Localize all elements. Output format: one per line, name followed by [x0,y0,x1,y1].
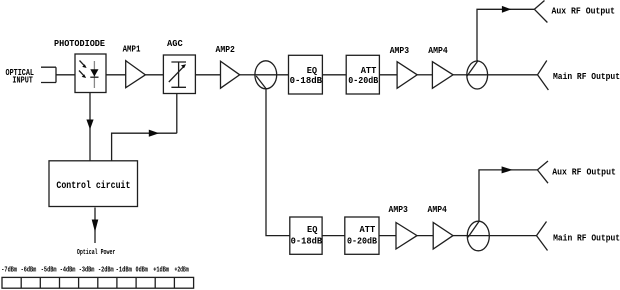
LED bar graph [2,277,194,288]
svg-text:PHOTODIODE: PHOTODIODE [54,39,106,49]
wire coupler to aux top [477,9,534,61]
svg-text:AMP4: AMP4 [428,46,448,56]
svg-text:AGC: AGC [167,39,183,49]
svg-text:-2dBm: -2dBm [98,267,114,275]
arrow on aux wire bottom [502,166,513,173]
wire coupler to main connector top [467,74,538,76]
svg-text:EQ: EQ [307,66,318,76]
amplifier AMP1 [126,61,146,88]
wire photodiode to AMP1 [106,74,126,76]
svg-text:+1dBm: +1dBm [153,267,169,275]
wire control circuit to optical power indicator [94,208,96,244]
svg-text:AMP3: AMP3 [390,46,409,56]
main connector top [538,61,549,91]
svg-text:-7dBm: -7dBm [1,267,17,275]
wire photodiode down to control circuit [89,93,91,162]
wire AMP2 to splitter [240,74,255,76]
splitter [255,61,277,89]
svg-text:0-20dB: 0-20dB [347,237,378,247]
svg-text:0-20dB: 0-20dB [348,76,379,86]
wire AMP1 to AGC [145,74,163,76]
wire EQ to ATT top [322,74,346,76]
coupler bottom [467,221,489,251]
svg-text:-5dBm: -5dBm [41,267,57,275]
svg-text:AMP4: AMP4 [428,205,448,215]
coupler top [467,60,488,89]
main connector bottom [537,222,548,251]
EQ box top [289,55,323,94]
svg-text:Control circuit: Control circuit [56,180,130,192]
svg-text:+2dBm: +2dBm [175,267,189,275]
control circuit box [49,161,138,207]
wire ATT to AMP3 bottom [379,235,396,237]
wire coupler to aux bottom [479,170,537,221]
svg-text:AMP3: AMP3 [389,205,408,215]
wire splitter down to bottom branch [266,89,290,236]
photodiode diode symbol [90,61,98,88]
svg-text:ATT: ATT [360,225,376,235]
svg-text:EQ: EQ [307,225,318,235]
svg-text:Aux RF Output: Aux RF Output [552,168,616,178]
ATT box bottom [345,217,379,254]
EQ box bottom [290,217,323,254]
svg-text:0dBm: 0dBm [136,267,148,275]
wire EQ to ATT bottom [322,235,345,237]
aux connector top [534,1,547,23]
wire coupler to main connector bottom [468,235,537,237]
ATT box top [346,55,379,94]
wire AMP4 to coupler bottom [453,235,468,237]
LED bar dBm labels [1,267,188,275]
svg-text:0-18dB: 0-18dB [291,237,323,247]
svg-text:0-18dB: 0-18dB [290,76,323,86]
label OPTICAL INPUT [6,68,35,86]
svg-text:Optical Power: Optical Power [77,249,116,257]
amplifier AMP3 top [397,62,417,89]
wire connector to photodiode [56,74,75,76]
svg-text:INPUT: INPUT [12,76,33,86]
wire control circuit to AGC [112,94,177,162]
wire AMP3 to AMP4 top [417,74,432,76]
svg-text:-3dBm: -3dBm [79,267,95,275]
arrow on aux wire top [502,6,511,13]
wire AMP4 to coupler top [453,74,467,76]
svg-text:Main RF Output: Main RF Output [553,72,620,82]
svg-text:-6dBm: -6dBm [21,267,37,275]
svg-text:Main RF Output: Main RF Output [553,234,620,244]
wire splitter to EQ top [255,74,289,76]
svg-text:ATT: ATT [361,66,377,76]
arrow on optical power wire [92,220,99,233]
photodiode light arrow 1 [80,61,87,69]
optical input connector [41,67,56,82]
arrow on photodiode-control wire [86,120,93,130]
photodiode light arrow 2 [79,71,86,79]
svg-text:-4dBm: -4dBm [60,267,76,275]
aux connector bottom [537,161,548,183]
svg-text:-1dBm: -1dBm [116,267,132,275]
wire ATT to AMP3 top [379,74,397,76]
amplifier AMP4 bottom [433,223,453,250]
amplifier AMP3 bottom [396,223,417,250]
AGC box [163,55,195,94]
amplifier AMP4 top [432,62,453,89]
svg-text:Aux RF Output: Aux RF Output [552,7,616,17]
AGC variable attenuator symbol [169,62,186,87]
wire AMP3 to AMP4 bottom [417,235,433,237]
svg-text:AMP2: AMP2 [216,45,235,55]
photodiode box [75,54,106,93]
amplifier AMP2 [221,61,240,88]
wire AGC to AMP2 [195,74,220,76]
svg-text:AMP1: AMP1 [123,45,141,55]
arrow on control-AGC wire [149,130,159,137]
